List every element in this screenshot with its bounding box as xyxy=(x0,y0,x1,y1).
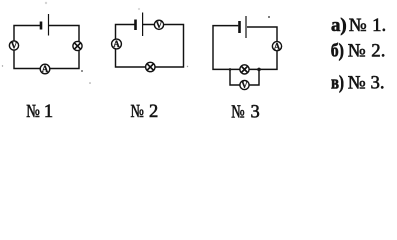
svg-text:№: № xyxy=(348,40,366,61)
svg-text:№: № xyxy=(231,102,245,122)
svg-text:V: V xyxy=(241,80,248,90)
svg-text:№: № xyxy=(131,102,145,122)
svg-text:A: A xyxy=(274,41,281,51)
svg-text:A: A xyxy=(113,39,120,49)
svg-text:№: № xyxy=(349,15,367,36)
svg-text:№: № xyxy=(26,102,40,122)
svg-text:3.: 3. xyxy=(371,72,385,93)
svg-text:V: V xyxy=(11,41,18,51)
svg-text:2: 2 xyxy=(149,102,158,122)
svg-text:V: V xyxy=(156,20,163,30)
svg-text:а): а) xyxy=(331,15,347,36)
svg-text:3: 3 xyxy=(251,102,260,122)
svg-text:б): б) xyxy=(331,40,344,61)
svg-text:1: 1 xyxy=(44,102,53,122)
svg-text:A: A xyxy=(42,64,49,74)
svg-text:в): в) xyxy=(331,72,344,93)
svg-text:№: № xyxy=(348,72,366,93)
svg-text:2.: 2. xyxy=(371,40,385,61)
svg-text:1.: 1. xyxy=(372,15,386,36)
